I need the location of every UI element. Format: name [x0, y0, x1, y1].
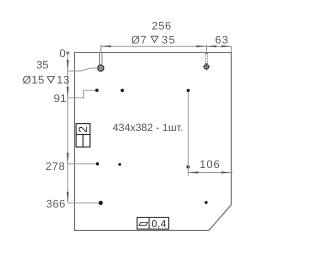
- svg-text:Ø15: Ø15: [23, 74, 45, 86]
- svg-text:278: 278: [45, 161, 65, 173]
- svg-text:434x382 - 1шт.: 434x382 - 1шт.: [113, 122, 183, 134]
- svg-text:366: 366: [46, 198, 66, 210]
- svg-text:256: 256: [152, 21, 172, 33]
- svg-text:0: 0: [59, 48, 65, 60]
- svg-text:2: 2: [76, 126, 90, 133]
- svg-text:91: 91: [54, 93, 67, 105]
- svg-text:0,4: 0,4: [151, 219, 166, 230]
- svg-text:13: 13: [57, 74, 70, 86]
- svg-text:Ø7: Ø7: [131, 34, 147, 46]
- svg-text:35: 35: [162, 34, 176, 46]
- svg-text:106: 106: [200, 159, 221, 171]
- svg-text:63: 63: [215, 34, 229, 46]
- svg-text:35: 35: [36, 59, 48, 71]
